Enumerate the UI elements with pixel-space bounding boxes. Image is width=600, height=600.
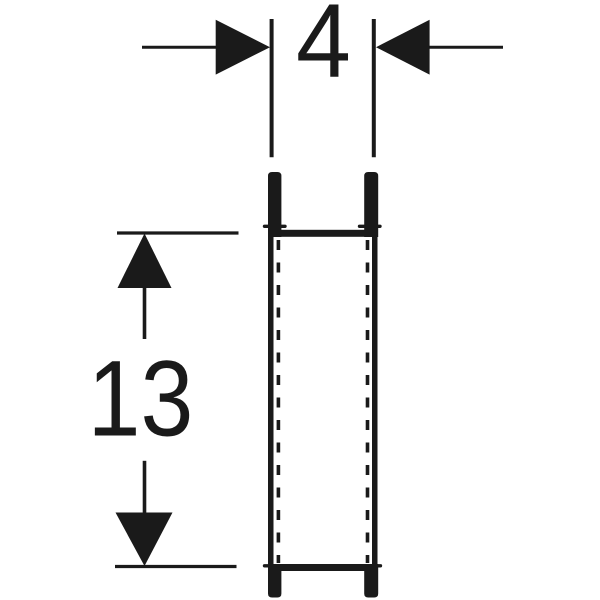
dimension 4: left arrowhead (216, 20, 270, 75)
profile: top crossbar (268, 230, 378, 237)
dimension 13: top extension line (117, 231, 239, 234)
profile: right inner dashed line (366, 240, 370, 563)
profile: bottom-left pin stub (268, 564, 281, 598)
dimension 13: upper dimension line (143, 287, 147, 339)
tick mark: bottom-right (360, 564, 381, 567)
dimension 13: bottom extension line (115, 565, 237, 568)
dimension 13: top arrowhead (118, 234, 172, 289)
dimension 4: left extension line (270, 19, 274, 157)
profile: left inner dashed line (277, 240, 281, 563)
dimension 4: right arrowhead (376, 20, 430, 75)
dimension 13: lower dimension line (143, 461, 147, 514)
profile: bottom crossbar (268, 564, 378, 571)
dimension 4: left dimension line (142, 46, 218, 49)
profile: top-right pin stub (364, 172, 378, 237)
dimension 13: bottom arrowhead (116, 513, 173, 567)
profile: top-left pin stub (268, 172, 281, 237)
tick mark: top-right (360, 225, 381, 228)
tick mark: top-left (265, 225, 286, 228)
profile: left outer wall (268, 230, 274, 571)
profile: right outer wall (372, 230, 378, 571)
svg-text:13: 13 (88, 338, 194, 459)
dimension 4: right dimension line (429, 46, 503, 49)
svg-text:4: 4 (296, 0, 351, 100)
dimension 4: right extension line (372, 19, 376, 157)
profile: bottom-right pin stub (364, 564, 378, 598)
tick mark: bottom-left (265, 564, 286, 567)
